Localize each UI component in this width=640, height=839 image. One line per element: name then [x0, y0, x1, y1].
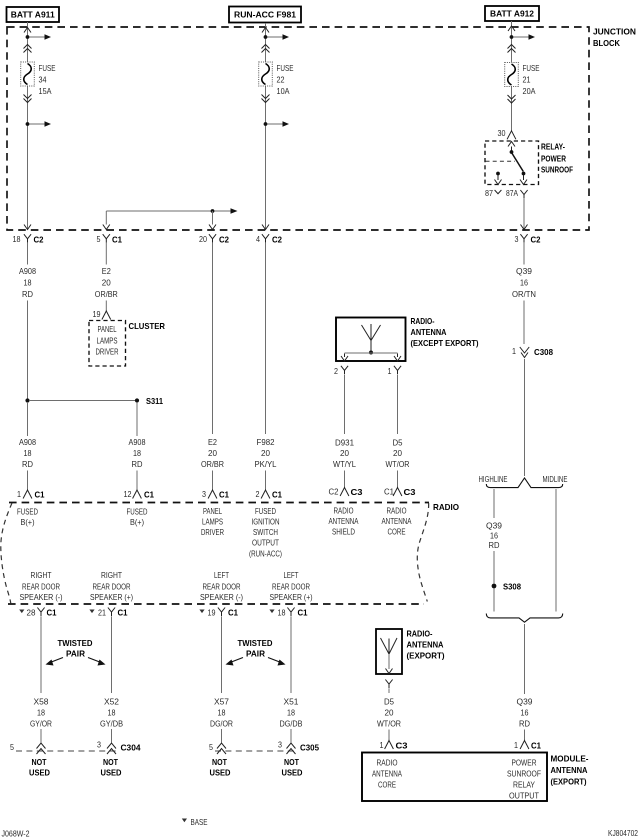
radio box bottom edge [8, 603, 424, 605]
svg-text:FUSE: FUSE [523, 63, 540, 73]
wire speaker segment [40, 617, 42, 694]
base footnote legend [182, 817, 208, 827]
node feed tap 1 with arrow [26, 34, 51, 40]
svg-text:87: 87 [485, 188, 493, 198]
svg-text:1: 1 [388, 366, 392, 376]
svg-text:SUNROOF: SUNROOF [541, 165, 573, 175]
node feed tap with arrow [264, 34, 289, 40]
svg-text:30: 30 [498, 128, 506, 138]
svg-text:BASE: BASE [191, 817, 208, 827]
svg-text:FUSE: FUSE [277, 63, 294, 73]
svg-text:21: 21 [98, 608, 106, 618]
svg-text:Q39: Q39 [517, 697, 533, 707]
inline connector 1 C308 [512, 346, 553, 358]
arrow exits junction block bottom [521, 225, 528, 230]
radio pin 21 C1 [89, 608, 127, 618]
wire segment [397, 471, 399, 489]
relay internal: pin 30 arrow [508, 142, 515, 154]
svg-text:3: 3 [202, 489, 206, 499]
arrow up to BATT A912 [508, 26, 515, 31]
wire Q39 segment [524, 624, 526, 694]
svg-text:3: 3 [278, 740, 282, 750]
svg-text:FUSED: FUSED [127, 507, 148, 517]
svg-text:19: 19 [208, 608, 216, 618]
svg-text:RD: RD [489, 540, 500, 550]
svg-text:HIGHLINE: HIGHLINE [479, 474, 508, 484]
svg-text:MIDLINE: MIDLINE [543, 474, 568, 484]
wire A908 segment [27, 301, 29, 400]
svg-text:GY/OR: GY/OR [30, 719, 52, 729]
svg-text:X58: X58 [34, 697, 49, 707]
midline wire [555, 489, 557, 612]
module pin labels radio antenna core [372, 758, 402, 790]
connector pin 5 C1 [97, 234, 123, 245]
wire stub from feed line [212, 211, 214, 225]
svg-text:C1: C1 [272, 490, 282, 500]
svg-text:CLUSTER: CLUSTER [129, 321, 166, 331]
svg-text:ANTENNA: ANTENNA [411, 327, 447, 337]
svg-text:RUN-ACC F981: RUN-ACC F981 [234, 10, 296, 20]
svg-text:FUSED: FUSED [17, 507, 38, 517]
svg-text:RD: RD [22, 289, 33, 299]
svg-text:C304: C304 [121, 743, 141, 753]
twisted pair label left [46, 638, 106, 666]
svg-text:1: 1 [380, 740, 384, 750]
connector C305 [209, 740, 319, 755]
svg-text:BATT A911: BATT A911 [11, 10, 55, 20]
svg-text:SPEAKER (+): SPEAKER (+) [270, 592, 313, 602]
svg-text:28: 28 [27, 608, 36, 618]
connector pin 20 C2 [199, 234, 229, 245]
svg-text:RADIO-: RADIO- [411, 316, 435, 326]
antenna socket Y [385, 680, 392, 685]
svg-text:SPEAKER (-): SPEAKER (-) [200, 592, 243, 602]
svg-text:20: 20 [199, 234, 207, 244]
svg-text:D5: D5 [393, 438, 403, 448]
svg-text:C3: C3 [351, 487, 363, 497]
wire A908 to radio pin 1 [27, 402, 29, 436]
svg-text:SWITCH: SWITCH [253, 527, 278, 537]
svg-text:SPEAKER (-): SPEAKER (-) [20, 592, 63, 602]
fuse 21 20A [505, 63, 540, 97]
svg-text:PAIR: PAIR [66, 649, 85, 659]
wire label A908 18 RD [19, 437, 36, 469]
svg-text:USED: USED [29, 768, 50, 778]
svg-text:20: 20 [340, 448, 349, 458]
svg-text:FUSE: FUSE [39, 63, 56, 73]
svg-text:RADIO: RADIO [334, 506, 354, 516]
wire label A908 18 RD [129, 437, 146, 469]
svg-text:OUTPUT: OUTPUT [252, 538, 279, 548]
svg-text:C2: C2 [531, 235, 541, 245]
svg-text:C3: C3 [404, 487, 416, 497]
wire label Q39 16 RD [517, 697, 533, 729]
svg-text:CORE: CORE [378, 780, 396, 790]
svg-text:87A: 87A [506, 188, 518, 198]
svg-text:PAIR: PAIR [246, 649, 265, 659]
svg-text:REAR DOOR: REAR DOOR [93, 582, 131, 592]
module antenna export label [551, 754, 589, 787]
svg-text:RADIO: RADIO [377, 758, 398, 768]
svg-text:LEFT: LEFT [214, 570, 229, 580]
svg-text:C1: C1 [47, 608, 57, 618]
wire speaker segment [221, 617, 223, 694]
svg-text:GY/DB: GY/DB [100, 719, 123, 729]
svg-text:RIGHT: RIGHT [31, 570, 52, 580]
svg-text:B(+): B(+) [130, 517, 144, 527]
wire crossing chevrons [24, 45, 32, 49]
svg-text:DRIVER: DRIVER [201, 527, 224, 537]
connector box BATT A911 [7, 7, 60, 22]
wire from BATT A911 down through junction block [27, 22, 29, 229]
svg-text:18: 18 [24, 278, 32, 288]
wire segment [136, 471, 138, 491]
connector pin 4 C2 [256, 234, 282, 245]
svg-text:RADIO-: RADIO- [407, 629, 433, 639]
svg-text:4: 4 [256, 234, 260, 244]
arrow up to RUN-ACC F981 [262, 28, 269, 33]
fuse 22 10A [259, 62, 294, 96]
svg-text:C1: C1 [35, 490, 45, 500]
svg-text:18: 18 [287, 708, 295, 718]
radio box top edge [9, 502, 429, 504]
wire crossing chevrons [508, 45, 516, 49]
svg-text:C1: C1 [298, 608, 308, 618]
svg-text:18: 18 [37, 708, 45, 718]
svg-text:OR/TN: OR/TN [512, 289, 536, 299]
svg-text:15A: 15A [39, 86, 52, 96]
relay pin 87 unused [495, 172, 502, 185]
svg-text:TWISTED: TWISTED [58, 638, 93, 648]
wire segment [524, 730, 526, 741]
svg-text:LEFT: LEFT [284, 570, 299, 580]
svg-text:C1: C1 [118, 608, 128, 618]
svg-text:2: 2 [334, 366, 338, 376]
svg-text:20: 20 [385, 708, 394, 718]
svg-text:USED: USED [282, 768, 303, 778]
svg-text:X51: X51 [284, 697, 299, 707]
svg-text:F982: F982 [257, 437, 275, 447]
arrow exits junction block bottom [103, 225, 110, 230]
wire segment [212, 471, 214, 491]
wire segment [221, 729, 223, 743]
node feed tap with arrow [510, 34, 535, 40]
node feed tap 2 with arrow [26, 121, 51, 127]
svg-text:18: 18 [13, 234, 21, 244]
wire label A908 18 RD [19, 266, 36, 299]
wire F982 long segment [265, 243, 267, 434]
radio pin 2 C1 [256, 489, 283, 500]
svg-text:ANTENNA: ANTENNA [407, 640, 444, 650]
relay pin 87A [520, 172, 527, 185]
svg-text:IGNITION: IGNITION [252, 517, 280, 527]
cluster pin 19 [93, 309, 111, 320]
wire label Q39 16 OR/TN [512, 266, 536, 299]
radio box torn right edge [417, 503, 428, 602]
module antenna export box [362, 753, 547, 802]
svg-text:JUNCTION: JUNCTION [593, 27, 636, 37]
svg-text:Q39: Q39 [486, 521, 502, 531]
svg-text:A908: A908 [19, 266, 36, 276]
svg-text:USED: USED [101, 768, 122, 778]
relay coil linkage dashed [486, 160, 516, 162]
relay pin 30 [498, 128, 516, 139]
wire Q39 inside junction block [523, 199, 525, 229]
radio pin 3 C1 [202, 489, 229, 500]
svg-text:5: 5 [209, 742, 213, 752]
svg-text:X52: X52 [104, 697, 119, 707]
svg-text:21: 21 [523, 75, 531, 85]
wire label F982 20 PK/YL [255, 437, 277, 469]
svg-text:RADIO: RADIO [387, 506, 407, 516]
svg-text:C305: C305 [300, 743, 319, 753]
svg-text:C308: C308 [534, 347, 553, 357]
svg-text:18: 18 [133, 448, 141, 458]
wire E2 long segment [212, 243, 214, 434]
wire D5 segment [388, 689, 390, 694]
junction block boundary [7, 27, 589, 230]
svg-text:18: 18 [218, 708, 226, 718]
wire label X57 18 DG/OR [210, 697, 233, 729]
svg-text:D931: D931 [335, 438, 354, 448]
svg-text:BATT A912: BATT A912 [490, 9, 534, 19]
junction block label [593, 27, 636, 49]
wire label D5 20 WT/OR [377, 697, 401, 729]
wire from S311 to radio pin 12 [136, 402, 138, 436]
radio antenna except export label [411, 316, 479, 348]
svg-text:OUTPUT: OUTPUT [509, 791, 539, 801]
wire segment [265, 471, 267, 491]
wire crossing chevrons [262, 45, 270, 49]
svg-text:B(+): B(+) [21, 517, 35, 527]
arrow exits junction block bottom [262, 225, 269, 230]
wire label X51 18 DG/DB [280, 697, 303, 729]
svg-text:RD: RD [519, 719, 530, 729]
svg-text:18: 18 [24, 448, 32, 458]
radio pin 18 C1 [269, 608, 307, 618]
wire segment [111, 729, 113, 743]
wire label Q39 16 RD [486, 521, 502, 551]
svg-text:2: 2 [256, 489, 260, 499]
wire D5 segment [397, 375, 399, 434]
svg-text:20A: 20A [523, 86, 536, 96]
wire crossing chevrons [24, 95, 32, 99]
svg-text:E2: E2 [102, 266, 111, 276]
svg-text:C1: C1 [219, 490, 229, 500]
svg-text:(EXCEPT EXPORT): (EXCEPT EXPORT) [411, 338, 479, 348]
relay switch blade [512, 153, 524, 172]
svg-text:C1: C1 [384, 487, 394, 497]
svg-text:DRIVER: DRIVER [96, 347, 119, 357]
wire label D931 20 WT/YL [333, 438, 356, 470]
svg-text:S311: S311 [146, 396, 163, 406]
antenna socket pins 2 and 1 [334, 366, 401, 376]
svg-text:3: 3 [515, 234, 519, 244]
svg-text:RADIO: RADIO [433, 502, 460, 512]
svg-text:PK/YL: PK/YL [255, 459, 277, 469]
twisted pair label right [226, 638, 286, 666]
wire Q39 segment [523, 243, 525, 265]
radio antenna export box [376, 629, 402, 674]
svg-text:LAMPS: LAMPS [202, 517, 223, 527]
svg-text:X57: X57 [214, 697, 229, 707]
svg-text:18: 18 [108, 708, 116, 718]
antenna output bracket [341, 353, 401, 361]
wire segment [290, 729, 292, 743]
wire label E2 20 OR/BR [95, 266, 118, 299]
wire crossing chevrons [508, 95, 516, 99]
svg-text:DG/OR: DG/OR [210, 719, 233, 729]
cluster component box [89, 321, 126, 367]
svg-text:A908: A908 [19, 437, 36, 447]
wire from BATT A912 down [511, 21, 513, 131]
wire speaker segment [111, 617, 113, 694]
svg-text:NOT: NOT [284, 757, 299, 767]
svg-text:PANEL: PANEL [98, 324, 117, 334]
svg-text:16: 16 [490, 531, 498, 541]
svg-text:20: 20 [208, 448, 217, 458]
svg-text:REAR DOOR: REAR DOOR [22, 582, 60, 592]
svg-text:C2: C2 [219, 235, 229, 245]
svg-text:ANTENNA: ANTENNA [329, 516, 359, 526]
svg-text:16: 16 [521, 708, 529, 718]
svg-text:10A: 10A [277, 86, 290, 96]
splice S311 [25, 396, 163, 406]
wire speaker segment [290, 617, 292, 694]
antenna symbol [362, 324, 381, 355]
svg-text:LAMPS: LAMPS [97, 336, 118, 346]
wire segment [27, 471, 29, 491]
svg-text:C1: C1 [531, 741, 541, 751]
svg-text:16: 16 [520, 278, 528, 288]
svg-text:RIGHT: RIGHT [101, 570, 122, 580]
svg-text:SHIELD: SHIELD [332, 527, 355, 537]
radio pin 1 C1 [17, 489, 45, 500]
svg-text:1: 1 [512, 346, 516, 356]
svg-text:REAR DOOR: REAR DOOR [203, 582, 241, 592]
wire label X58 18 GY/OR [30, 697, 52, 729]
radio pin 28 C1 [19, 608, 57, 618]
radio pin C2 C3 [329, 487, 363, 498]
svg-text:5: 5 [97, 234, 101, 244]
wire A908 segment [27, 243, 29, 265]
svg-text:OR/BR: OR/BR [201, 459, 224, 469]
wire Q39 segment [523, 301, 525, 345]
svg-text:19: 19 [93, 309, 101, 319]
svg-text:3: 3 [97, 740, 101, 750]
svg-text:SUNROOF: SUNROOF [507, 769, 541, 779]
svg-text:RELAY-: RELAY- [541, 142, 565, 152]
radio speaker labels bottom row [20, 570, 63, 602]
wire crossing chevrons [262, 95, 270, 99]
wire stub to 5 C1 [105, 211, 107, 225]
radio antenna export label [407, 629, 445, 661]
connector pin 3 C2 [515, 234, 541, 245]
radio pin 19 C1 [199, 608, 238, 618]
svg-text:FUSED: FUSED [255, 506, 276, 516]
svg-text:5: 5 [10, 742, 14, 752]
svg-text:TWISTED: TWISTED [238, 638, 273, 648]
svg-text:1: 1 [17, 489, 21, 499]
svg-text:NOT: NOT [32, 757, 47, 767]
svg-text:BLOCK: BLOCK [593, 38, 620, 48]
module pin 1 C1 [514, 740, 541, 751]
top brace split [486, 478, 562, 488]
svg-text:34: 34 [39, 75, 47, 85]
panel lamps feed line with arrow [106, 208, 237, 214]
wire segment [344, 471, 346, 489]
svg-text:C3: C3 [396, 741, 408, 751]
connector C304 [10, 740, 141, 755]
svg-text:NOT: NOT [212, 757, 227, 767]
wire label E2 20 OR/BR [201, 437, 224, 469]
svg-text:A908: A908 [129, 437, 146, 447]
svg-text:DG/DB: DG/DB [280, 719, 303, 729]
svg-text:C1: C1 [144, 490, 154, 500]
svg-text:CORE: CORE [388, 527, 406, 537]
svg-text:(EXPORT): (EXPORT) [407, 651, 445, 661]
svg-text:WT/YL: WT/YL [333, 459, 356, 469]
svg-text:C1: C1 [112, 235, 122, 245]
svg-text:REAR DOOR: REAR DOOR [272, 582, 310, 592]
svg-text:MODULE-: MODULE- [551, 754, 589, 764]
svg-text:C2: C2 [329, 487, 339, 497]
svg-text:(RUN-ACC): (RUN-ACC) [249, 549, 282, 559]
svg-text:1: 1 [514, 740, 518, 750]
fuse 34 15A [21, 62, 56, 96]
relay power sunroof box [485, 141, 539, 185]
module pin 1 C3 [380, 740, 408, 751]
wire D931 segment [344, 375, 346, 434]
wire from RUN-ACC F981 down [265, 23, 267, 229]
wire E2 segment [105, 301, 107, 312]
wire E2 segment [105, 243, 107, 265]
arrow up to BATT A911 [24, 28, 31, 33]
svg-text:POWER: POWER [541, 154, 566, 164]
arrow exits junction block bottom [24, 225, 31, 230]
connector box RUN-ACC F981 [229, 7, 301, 23]
svg-text:J068W-2: J068W-2 [2, 829, 30, 839]
svg-text:ANTENNA: ANTENNA [382, 516, 412, 526]
svg-text:(EXPORT): (EXPORT) [551, 777, 587, 787]
svg-text:SPEAKER (+): SPEAKER (+) [90, 592, 133, 602]
svg-text:D5: D5 [384, 697, 394, 707]
not used labels [29, 757, 50, 778]
svg-text:USED: USED [210, 768, 231, 778]
svg-text:POWER: POWER [512, 758, 537, 768]
bottom brace merge [486, 614, 562, 623]
relay pin labels 87 87A [485, 188, 518, 198]
wire label D5 20 WT/OR [386, 438, 410, 470]
svg-text:20: 20 [261, 448, 270, 458]
svg-text:ANTENNA: ANTENNA [551, 765, 588, 775]
radio pin 12 C1 [124, 489, 155, 500]
svg-text:KJ804702: KJ804702 [608, 828, 638, 838]
svg-text:ANTENNA: ANTENNA [372, 769, 402, 779]
svg-text:C2: C2 [272, 235, 282, 245]
svg-text:20: 20 [102, 278, 111, 288]
svg-text:RELAY: RELAY [513, 780, 535, 790]
svg-text:OR/BR: OR/BR [95, 289, 118, 299]
radio pin C1 C3 [384, 487, 416, 498]
svg-text:RD: RD [132, 459, 143, 469]
svg-text:WT/OR: WT/OR [386, 459, 410, 469]
svg-text:E2: E2 [208, 437, 217, 447]
radio pin function labels top row [17, 507, 38, 528]
splice S308 [492, 582, 522, 592]
antenna symbol export [381, 638, 398, 674]
radio box torn left edge [1, 503, 12, 604]
